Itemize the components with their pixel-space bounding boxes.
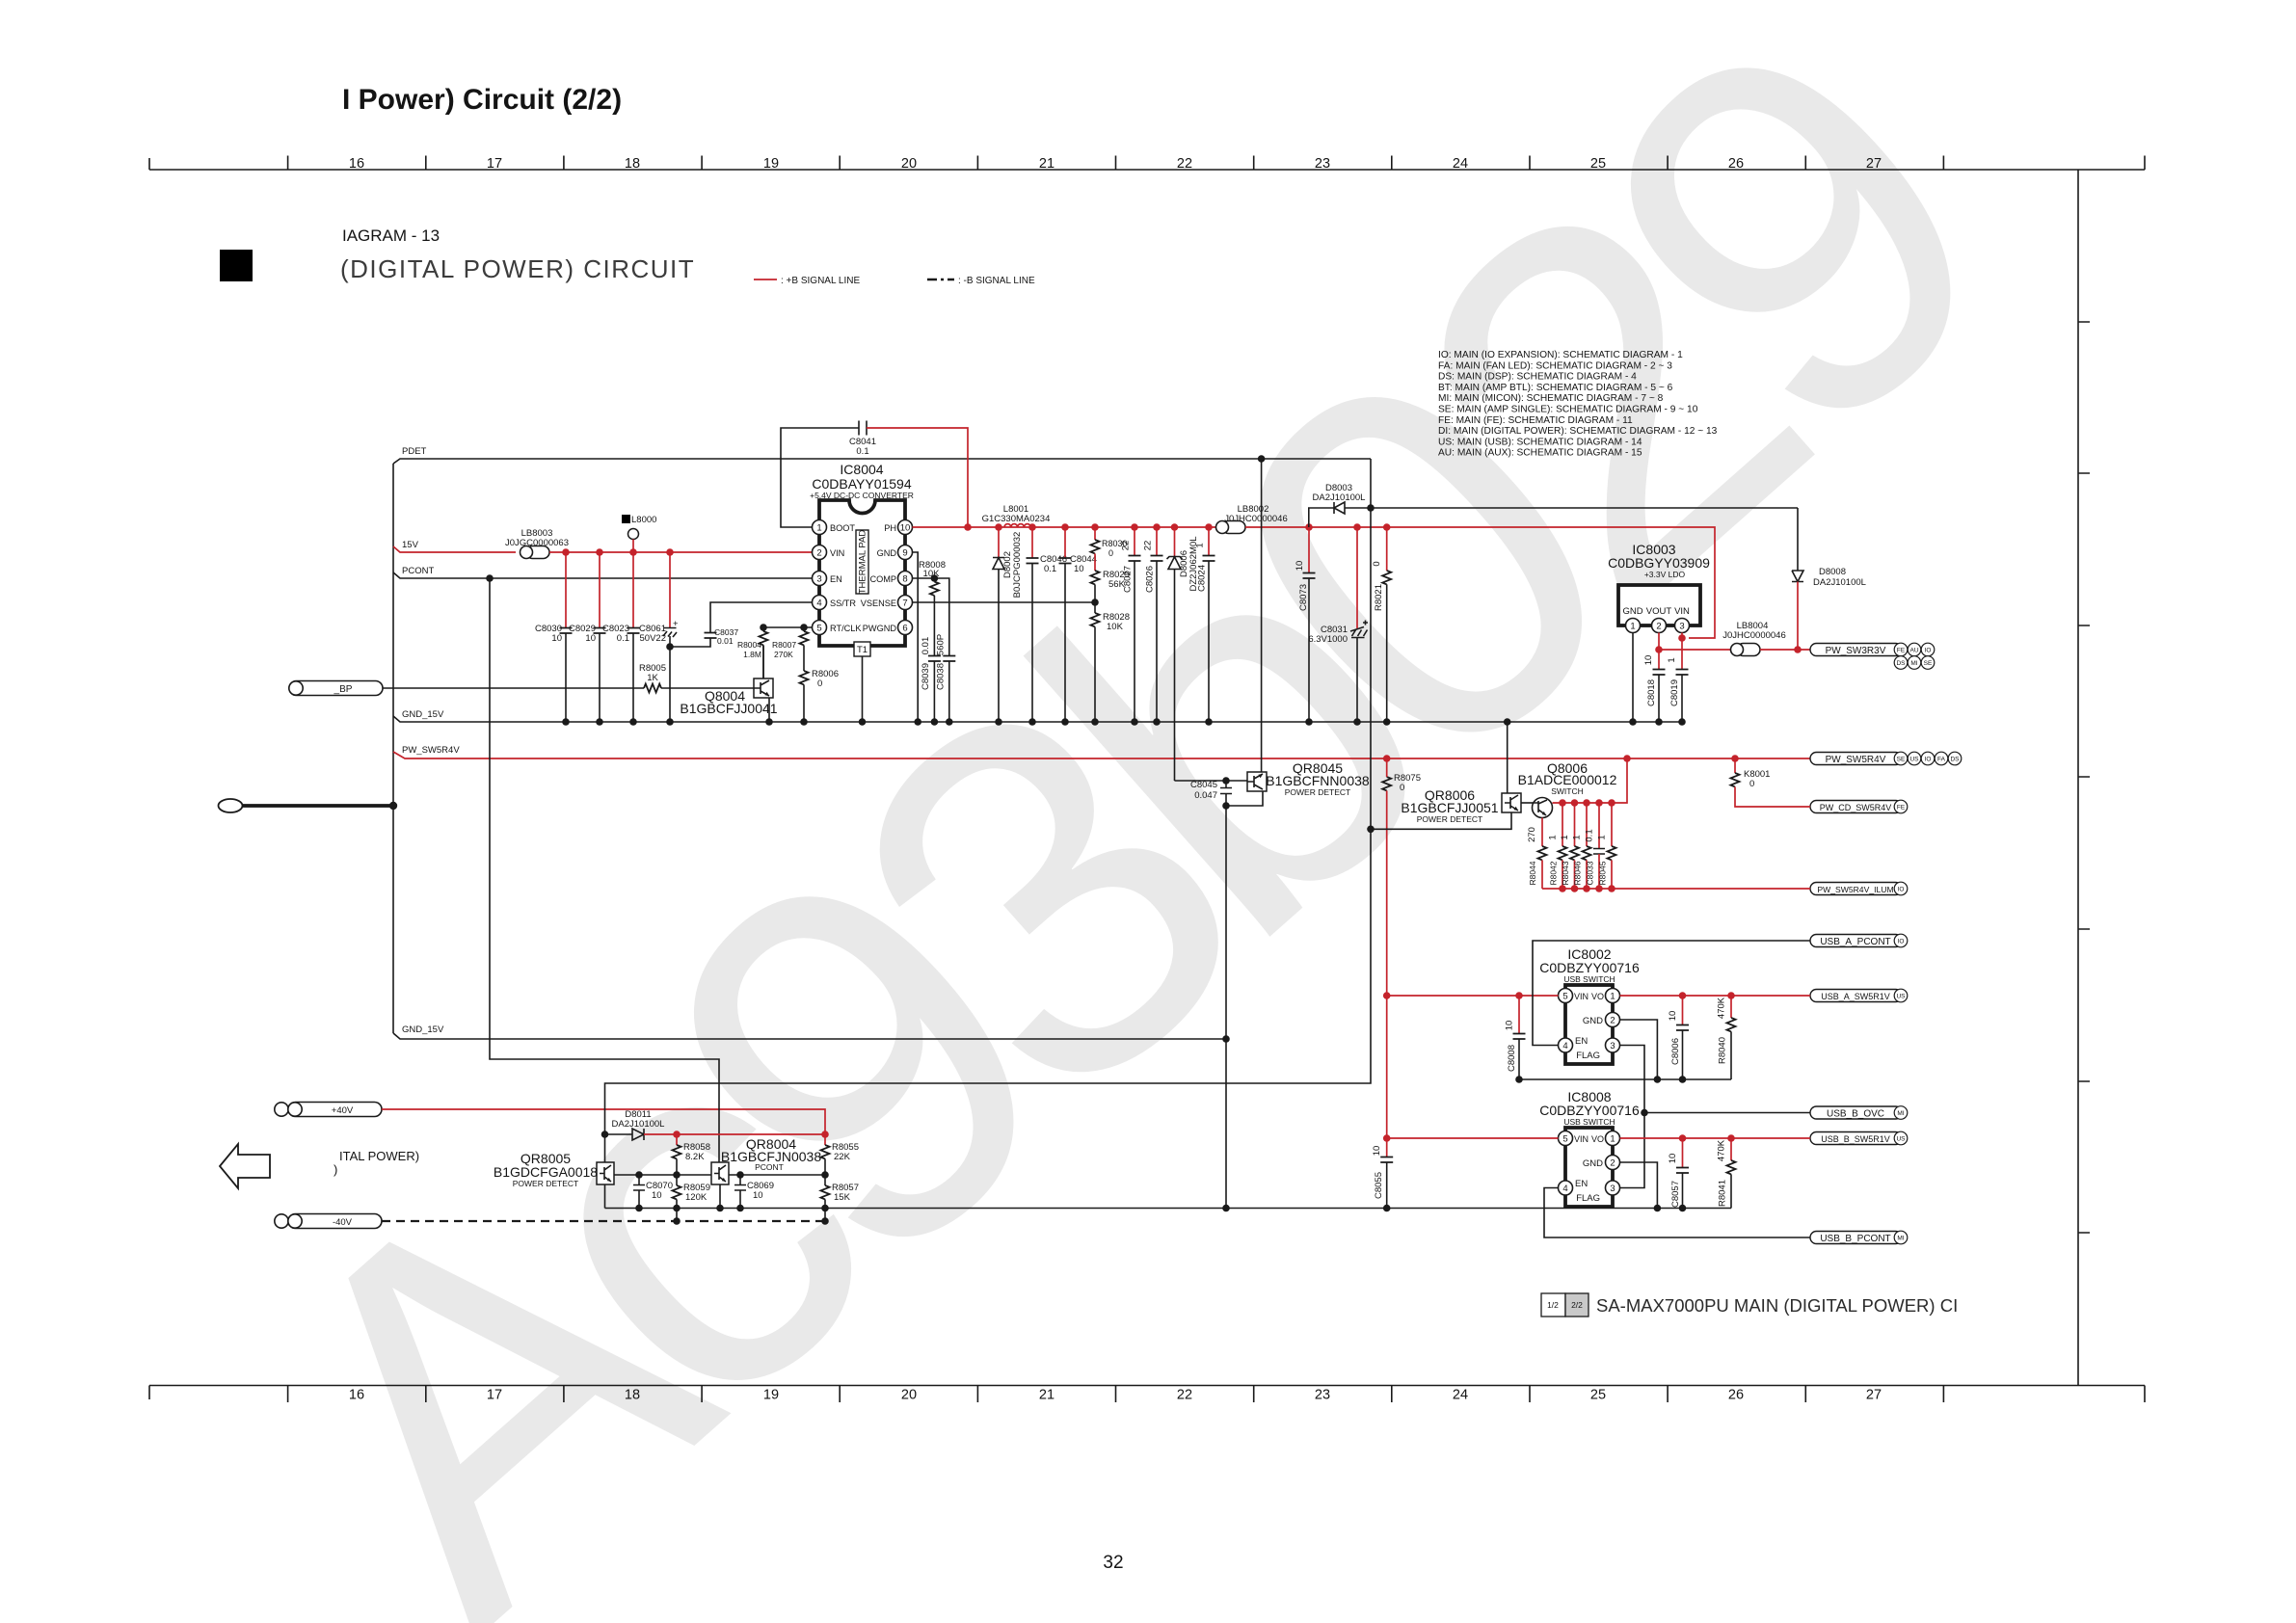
junction C8046 xyxy=(1028,523,1036,531)
svg-text:I Power) Circuit (2/2): I Power) Circuit (2/2) xyxy=(342,84,622,116)
svg-text:C0DBAYY01594: C0DBAYY01594 xyxy=(812,476,911,492)
svg-text:20: 20 xyxy=(901,1388,917,1403)
svg-text:G1C330MA0234: G1C330MA0234 xyxy=(982,514,1051,524)
ferrite bead LB8002 xyxy=(1216,521,1246,534)
junction PCONT xyxy=(486,574,494,582)
svg-text:0.1: 0.1 xyxy=(1585,829,1595,841)
junction C8027 xyxy=(1131,523,1138,531)
svg-text:C8026: C8026 xyxy=(1145,566,1156,593)
svg-text:IO: IO xyxy=(1898,939,1905,945)
svg-text:IO: IO xyxy=(1898,887,1905,893)
net flag PW_SW5R4V xyxy=(1810,753,1902,765)
junction VSENSE/R8028 xyxy=(1091,599,1099,606)
wire VOUT xyxy=(1658,633,1660,670)
zener D8006 DZ2J062M0L xyxy=(1174,527,1176,556)
capacitor C8037 0.01 xyxy=(705,633,717,639)
resistor R8045 1 xyxy=(1608,799,1615,807)
diode D8011 xyxy=(601,1131,609,1138)
svg-text:J0JGC0000063: J0JGC0000063 xyxy=(505,538,569,548)
capacitor C8046 0.1 xyxy=(1031,527,1033,558)
ferrite bead LB8004 xyxy=(1731,644,1761,656)
svg-text:23: 23 xyxy=(1315,156,1330,172)
svg-text:8: 8 xyxy=(902,574,907,585)
svg-text:10: 10 xyxy=(1074,564,1084,574)
svg-text:MI: MI xyxy=(1897,1236,1904,1242)
wire USB_B_OVC xyxy=(1644,1112,1810,1114)
pin 3 EN xyxy=(813,572,827,586)
pin 10 PH xyxy=(898,520,913,535)
svg-text:B0JCPG000032: B0JCPG000032 xyxy=(1012,532,1023,599)
capacitor C8027 22 xyxy=(1134,527,1135,556)
svg-text:15K: 15K xyxy=(834,1192,851,1203)
svg-text:18: 18 xyxy=(625,1388,640,1403)
capacitor C8069 10 xyxy=(739,1175,741,1184)
svg-text:DA2J10100L: DA2J10100L xyxy=(1313,492,1366,503)
resistor R8005 1K xyxy=(644,684,661,693)
svg-text:10: 10 xyxy=(753,1190,763,1201)
svg-text:10: 10 xyxy=(585,633,596,644)
svg-text:DS: DS xyxy=(1950,757,1960,763)
svg-text:1K: 1K xyxy=(647,673,658,683)
pin 1 BOOT xyxy=(813,520,827,535)
transistor Q8004 xyxy=(754,678,773,698)
bottom ruler ticks xyxy=(149,1386,2145,1403)
svg-text:SE: MAIN (AMP SINGLE): SCHEMAT: SE: MAIN (AMP SINGLE): SCHEMATIC DIAGRAM… xyxy=(1438,405,1698,415)
svg-text:T1: T1 xyxy=(857,645,868,655)
svg-text:THERMAL PAD: THERMAL PAD xyxy=(858,530,868,595)
capacitor C8070 10 xyxy=(638,1175,640,1184)
wire GND pin9 down xyxy=(913,552,919,722)
svg-text:POWER DETECT: POWER DETECT xyxy=(1417,814,1482,824)
svg-text:1: 1 xyxy=(816,523,821,534)
svg-text:C8027: C8027 xyxy=(1123,566,1134,593)
svg-text:US: US xyxy=(1896,1136,1906,1143)
svg-text:FLAG: FLAG xyxy=(1576,1051,1600,1061)
pin 8 COMP xyxy=(898,572,913,586)
svg-text:23: 23 xyxy=(1315,1388,1330,1403)
svg-text:470K: 470K xyxy=(1717,1139,1727,1161)
junction C8006 xyxy=(1679,992,1687,999)
svg-text:10: 10 xyxy=(652,1190,662,1201)
svg-text:VIN: VIN xyxy=(1674,606,1690,617)
transistor QR8045 xyxy=(1247,772,1267,791)
QR8005 output line xyxy=(614,1174,711,1176)
wire VSENSE xyxy=(913,601,1096,603)
svg-text:10: 10 xyxy=(1372,1146,1382,1157)
svg-text:IAGRAM - 13: IAGRAM - 13 xyxy=(342,226,440,245)
capacitor C8073 10 xyxy=(1308,527,1310,573)
svg-text:22: 22 xyxy=(1121,541,1132,551)
junction thick/bus xyxy=(389,802,397,810)
svg-text:1: 1 xyxy=(1667,657,1677,662)
junction R8041 xyxy=(1727,1134,1735,1142)
pin 1 xyxy=(1626,619,1641,633)
svg-text:C8055: C8055 xyxy=(1374,1172,1384,1199)
svg-text:10: 10 xyxy=(1295,561,1305,572)
svg-text:C0DBGYY03909: C0DBGYY03909 xyxy=(1608,555,1710,571)
svg-text:32: 32 xyxy=(1103,1553,1123,1573)
net flag USB_A_SW5R1V xyxy=(1810,990,1902,1002)
junction C8008 xyxy=(1515,992,1523,999)
junction D8006 xyxy=(1171,523,1179,531)
junction C8039/GND xyxy=(931,718,939,726)
wire _BP to R8005 xyxy=(383,687,644,689)
svg-text:21: 21 xyxy=(1039,1388,1055,1403)
svg-text:4: 4 xyxy=(1562,1041,1567,1051)
junction C8073 xyxy=(1305,523,1313,531)
svg-text:EN: EN xyxy=(830,574,842,584)
svg-text:SA-MAX7000PU MAIN (DIGITAL POW: SA-MAX7000PU MAIN (DIGITAL POWER) CI xyxy=(1596,1295,1958,1316)
capacitor C8041 xyxy=(859,421,867,436)
svg-text:19: 19 xyxy=(763,156,779,172)
junction FLAG/OVC xyxy=(1641,1109,1648,1117)
svg-text:_BP: _BP xyxy=(334,684,353,695)
resistor R8006 0 xyxy=(803,645,805,671)
svg-text:B1GBCFJJ0041: B1GBCFJJ0041 xyxy=(680,701,777,716)
top ruler ticks xyxy=(149,156,2145,171)
net flag USB_B_PCONT xyxy=(1810,1232,1902,1244)
svg-text:BT: MAIN (AMP BTL): SCHEMATIC: BT: MAIN (AMP BTL): SCHEMATIC DIAGRAM - … xyxy=(1438,383,1673,393)
svg-text:PW_SW5R4V: PW_SW5R4V xyxy=(1826,755,1886,765)
svg-text:(DIGITAL POWER) CIRCUIT: (DIGITAL POWER) CIRCUIT xyxy=(340,254,695,283)
svg-text:EN: EN xyxy=(1575,1036,1588,1047)
svg-text:DS: MAIN (DSP): SCHEMATIC DIAG: DS: MAIN (DSP): SCHEMATIC DIAGRAM - 4 xyxy=(1438,372,1637,383)
junction COMP/R8008 xyxy=(931,574,939,582)
junction VIN xyxy=(1678,634,1686,642)
svg-text:1.8M: 1.8M xyxy=(743,650,761,659)
svg-text:C8073: C8073 xyxy=(1298,584,1309,611)
svg-text:ITAL POWER): ITAL POWER) xyxy=(339,1149,419,1163)
svg-text:B1GBCFJJ0051: B1GBCFJJ0051 xyxy=(1401,800,1498,815)
junction R8004 top xyxy=(760,624,767,631)
junction base/C8045 xyxy=(1222,777,1230,785)
net flag USB_B_OVC xyxy=(1810,1106,1902,1119)
svg-text:BOOT: BOOT xyxy=(830,523,855,533)
svg-text:GND_15V: GND_15V xyxy=(402,709,444,720)
bottom ruler line xyxy=(149,1385,2145,1387)
QR8006 emitter wire xyxy=(1371,812,1511,829)
svg-text:27: 27 xyxy=(1866,1388,1882,1403)
net flag USB_B_SW5R1V xyxy=(1810,1132,1902,1145)
svg-text:C8039: C8039 xyxy=(921,663,931,690)
svg-text:50V22: 50V22 xyxy=(640,633,666,644)
svg-text:SE: SE xyxy=(1924,660,1933,667)
net flag USB_A_PCONT xyxy=(1810,935,1902,947)
junction C8041/PH xyxy=(964,523,972,531)
junction R8007 top xyxy=(800,624,808,631)
svg-text:7: 7 xyxy=(902,599,907,609)
junction C8031 xyxy=(1353,523,1361,531)
pin 6 PWGND xyxy=(898,621,913,635)
thermistor TL8000 xyxy=(622,515,630,523)
svg-text:1: 1 xyxy=(1195,543,1206,547)
QR8006 collector to GND_15V xyxy=(1507,722,1508,793)
junction 15V/C8023 xyxy=(629,548,637,556)
capacitor C8033 0.1 xyxy=(1595,799,1603,807)
QR8045 base wire xyxy=(1175,780,1248,782)
top ruler numbers xyxy=(349,156,1882,172)
svg-text:R8044: R8044 xyxy=(1528,861,1537,885)
QR8004 emitter xyxy=(719,1184,721,1209)
junction C8057 xyxy=(1679,1134,1687,1142)
junction T1/GND xyxy=(859,718,867,726)
capacitor C8024 1 xyxy=(1208,527,1210,556)
net flag PW_CD_SW5R4V xyxy=(1810,801,1902,813)
junction 15V/C8030 xyxy=(562,548,570,556)
svg-text:PDET: PDET xyxy=(402,446,427,457)
wire C8041 to PH net xyxy=(867,428,968,527)
svg-text:-40V: -40V xyxy=(333,1217,353,1228)
svg-text:GND: GND xyxy=(1622,606,1642,617)
pin 2 VIN xyxy=(813,545,827,560)
capacitor C8055 10 xyxy=(1386,1138,1388,1157)
pin 9 GND xyxy=(898,545,913,560)
capacitor C8030 10 xyxy=(565,552,567,628)
svg-text:4: 4 xyxy=(1562,1184,1567,1194)
capacitor C8023 0.1 xyxy=(632,552,634,628)
svg-text:COMP: COMP xyxy=(869,574,896,584)
svg-text:FLAG: FLAG xyxy=(1576,1193,1600,1204)
left bus vertical xyxy=(392,464,394,1033)
svg-text:18: 18 xyxy=(625,156,640,172)
svg-text:R8021: R8021 xyxy=(1374,584,1384,611)
wire PDET drop to QR8045 xyxy=(1261,459,1263,772)
svg-text:R8007: R8007 xyxy=(772,640,796,650)
svg-text:0.1: 0.1 xyxy=(617,633,629,644)
T1 pad xyxy=(854,642,870,656)
svg-text:10K: 10K xyxy=(923,569,941,579)
junction Q8004/GND xyxy=(765,718,773,726)
svg-text:C8045: C8045 xyxy=(1190,780,1217,790)
svg-text:USB_A_SW5R1V: USB_A_SW5R1V xyxy=(1821,992,1890,1001)
junction R8021 xyxy=(1383,523,1391,531)
svg-text:22K: 22K xyxy=(834,1152,851,1162)
svg-text:PW_CD_SW5R4V: PW_CD_SW5R4V xyxy=(1820,803,1892,812)
pin 4 xyxy=(1559,1181,1573,1195)
svg-text:SS/TR: SS/TR xyxy=(830,599,856,608)
svg-text:MI: MI xyxy=(1897,1110,1904,1117)
junction C8044 xyxy=(1061,523,1069,531)
svg-text:DI: MAIN (DIGITAL POWER): SCHE: DI: MAIN (DIGITAL POWER): SCHEMATIC DIAG… xyxy=(1438,426,1718,437)
svg-text:VOUT: VOUT xyxy=(1646,606,1672,617)
svg-text:J0JHC0000046: J0JHC0000046 xyxy=(1224,514,1288,524)
resistor R8046 1 xyxy=(1583,799,1590,807)
resistor R8055 22K xyxy=(824,1134,826,1145)
svg-text:MI: MI xyxy=(1910,660,1917,667)
svg-text:VO: VO xyxy=(1591,992,1604,1001)
pin 1 xyxy=(1606,1131,1620,1146)
diode D8002 xyxy=(995,523,1002,531)
svg-text:0.047: 0.047 xyxy=(1194,790,1217,801)
svg-text:1: 1 xyxy=(1630,622,1635,632)
legend -B xyxy=(927,279,954,280)
capacitor C8057 10 xyxy=(1682,1138,1684,1168)
svg-text:US: US xyxy=(1896,994,1906,1000)
svg-text:DS: DS xyxy=(1896,660,1906,667)
svg-text:GND: GND xyxy=(1583,1016,1603,1026)
svg-text:17: 17 xyxy=(487,156,502,172)
svg-text:2: 2 xyxy=(1610,1016,1615,1026)
svg-text:GND_15V: GND_15V xyxy=(402,1024,444,1035)
svg-text:15V: 15V xyxy=(402,540,419,550)
svg-text:IC8004: IC8004 xyxy=(840,462,883,477)
top ruler line xyxy=(149,169,2145,171)
svg-text:EN: EN xyxy=(1575,1179,1588,1189)
EN wire to USB_B_PCONT xyxy=(1544,1188,1810,1238)
QR8045 emitter wire xyxy=(1226,791,1263,806)
svg-text:C0DBZYY00716: C0DBZYY00716 xyxy=(1539,1103,1640,1118)
svg-text:SWITCH: SWITCH xyxy=(1551,786,1584,796)
svg-text:2: 2 xyxy=(1610,1158,1615,1169)
svg-text:: -B SIGNAL LINE: : -B SIGNAL LINE xyxy=(958,276,1035,286)
wire VIN xyxy=(1681,633,1683,670)
svg-text:25: 25 xyxy=(1590,156,1606,172)
transistor Q8006 xyxy=(1533,798,1553,818)
thermal pad xyxy=(856,530,868,594)
svg-text:DA2J10100L: DA2J10100L xyxy=(1813,577,1866,588)
svg-text:5: 5 xyxy=(1562,1134,1567,1145)
thick wire to bus xyxy=(242,804,393,808)
GND pin wire xyxy=(1620,1162,1658,1209)
svg-text:0: 0 xyxy=(817,678,822,689)
transistor QR8005 xyxy=(597,1162,614,1184)
QR8006 output to Q8006 xyxy=(1521,802,1533,804)
svg-text:10: 10 xyxy=(1505,1021,1515,1031)
svg-text:C8018: C8018 xyxy=(1646,679,1657,706)
capacitor C8039 0.01 xyxy=(928,656,941,662)
svg-text:SE: SE xyxy=(1897,757,1906,763)
svg-text:): ) xyxy=(334,1162,337,1177)
svg-text:16: 16 xyxy=(349,156,364,172)
svg-text:5: 5 xyxy=(1562,992,1567,1002)
svg-text:120K: 120K xyxy=(685,1192,707,1203)
svg-text:0: 0 xyxy=(1400,783,1404,793)
svg-text:4: 4 xyxy=(816,599,821,609)
IC body IC8002 xyxy=(1565,985,1613,1064)
svg-text:USB_B_PCONT: USB_B_PCONT xyxy=(1820,1234,1890,1244)
wire -40V dashed xyxy=(382,1220,825,1222)
capacitor C8008 10 xyxy=(1518,996,1520,1034)
svg-text:FE: MAIN (FE): SCHEMATIC DIAGR: FE: MAIN (FE): SCHEMATIC DIAGRAM - 11 xyxy=(1438,415,1633,426)
resistor R8030 0 xyxy=(1094,527,1096,540)
pin 7 VSENSE xyxy=(898,596,913,610)
svg-text:US: MAIN (USB): SCHEMATIC DIAG: US: MAIN (USB): SCHEMATIC DIAGRAM - 14 xyxy=(1438,437,1642,447)
svg-text:3: 3 xyxy=(1610,1041,1615,1051)
svg-text:C0DBZYY00716: C0DBZYY00716 xyxy=(1539,960,1640,975)
svg-text:26: 26 xyxy=(1728,1388,1744,1403)
vertical to lower gnd xyxy=(1225,806,1227,1209)
svg-text:PW_SW5R4V: PW_SW5R4V xyxy=(402,745,460,756)
svg-text:R8040: R8040 xyxy=(1718,1037,1728,1064)
svg-text:B1ADCE000012: B1ADCE000012 xyxy=(1518,772,1617,787)
svg-text:270K: 270K xyxy=(774,650,793,659)
svg-text:+: + xyxy=(673,619,679,629)
svg-text:22: 22 xyxy=(1143,541,1154,551)
svg-text:PCONT: PCONT xyxy=(402,566,434,576)
svg-text:10K: 10K xyxy=(1107,622,1124,632)
pin 1 xyxy=(1606,989,1620,1003)
resistor R8057 15K xyxy=(824,1175,826,1185)
svg-text:10: 10 xyxy=(551,633,562,644)
capacitor C8018 10 xyxy=(1653,670,1666,676)
destination codes FE AU IO / DS MI SE xyxy=(1894,643,1935,669)
svg-text:C8024: C8024 xyxy=(1197,565,1208,592)
junction pin9/GND xyxy=(914,718,921,726)
long vertical D8003 net xyxy=(605,459,1372,1134)
svg-text:0.1: 0.1 xyxy=(856,446,868,457)
svg-text:: +B SIGNAL LINE: : +B SIGNAL LINE xyxy=(781,276,860,286)
svg-text:270: 270 xyxy=(1527,827,1537,842)
svg-text:1/2: 1/2 xyxy=(1547,1300,1559,1310)
svg-text:J0JHC0000046: J0JHC0000046 xyxy=(1722,630,1786,641)
svg-text:26: 26 xyxy=(1728,156,1744,172)
wire VOUT to PW_SW3R3V xyxy=(1659,649,1733,651)
sheet index boxes xyxy=(1541,1293,1565,1317)
pin 3 xyxy=(1606,1038,1620,1052)
svg-text:0.01: 0.01 xyxy=(921,637,931,655)
svg-text:VSENSE: VSENSE xyxy=(861,599,896,608)
wire 15V to IC8004 VIN xyxy=(549,551,812,553)
resistor R8004 1.8M xyxy=(762,627,764,631)
red feed vertical xyxy=(1387,995,1559,997)
svg-text:+40V: +40V xyxy=(332,1105,354,1116)
junction D8003/QR net xyxy=(1367,504,1375,512)
PCONT drop xyxy=(490,578,719,1162)
capacitor C8038 560P xyxy=(943,656,955,662)
resistor R8008 10K xyxy=(933,578,935,582)
wire +40V xyxy=(382,1109,825,1134)
svg-text:K8001: K8001 xyxy=(1744,769,1770,780)
svg-text:GND: GND xyxy=(877,548,897,558)
capacitor C8029 10 xyxy=(599,552,601,628)
svg-text:L8000: L8000 xyxy=(631,515,656,525)
wire RT/CLK xyxy=(763,626,813,628)
svg-text:PH: PH xyxy=(884,523,896,533)
junction C8045 vert xyxy=(1222,1205,1230,1212)
svg-text:R8041: R8041 xyxy=(1718,1180,1728,1207)
svg-text:2: 2 xyxy=(1656,622,1661,632)
svg-text:FA: FA xyxy=(1937,757,1946,763)
VO wire to flag xyxy=(1620,995,1811,997)
QR8005 collector from D8011 node xyxy=(604,1134,606,1162)
svg-text:1: 1 xyxy=(1610,1134,1615,1145)
ILUM bus to flag xyxy=(1542,888,1810,890)
svg-text:21: 21 xyxy=(1039,156,1055,172)
svg-text:19: 19 xyxy=(763,1388,779,1403)
Q8006 emitter down xyxy=(1541,818,1543,847)
svg-text:2: 2 xyxy=(816,548,821,559)
wire R8005 to Q8004 xyxy=(661,687,754,689)
legend +B xyxy=(754,279,777,280)
pin 5 xyxy=(1559,989,1573,1003)
svg-text:22: 22 xyxy=(1177,156,1192,172)
pin 2 xyxy=(1606,1013,1620,1027)
svg-text:16: 16 xyxy=(349,1388,364,1403)
svg-text:10: 10 xyxy=(1668,1011,1678,1022)
pin 2 xyxy=(1652,619,1667,633)
capacitor C8019 1 xyxy=(1676,670,1689,676)
svg-text:R8075: R8075 xyxy=(1394,773,1421,784)
pin 4 SS/TR xyxy=(813,596,827,610)
svg-text:1: 1 xyxy=(1560,835,1570,839)
junction C8045/emitter xyxy=(1222,802,1230,810)
connector -40V xyxy=(288,1214,382,1229)
svg-text:+5.4V DC-DC CONVERTER: +5.4V DC-DC CONVERTER xyxy=(810,491,914,500)
svg-text:PW_SW5R4V_ILUM: PW_SW5R4V_ILUM xyxy=(1817,885,1893,894)
svg-text:FE: FE xyxy=(1897,805,1906,811)
svg-text:6: 6 xyxy=(902,624,907,634)
bottom ruler numbers xyxy=(349,1388,1882,1403)
